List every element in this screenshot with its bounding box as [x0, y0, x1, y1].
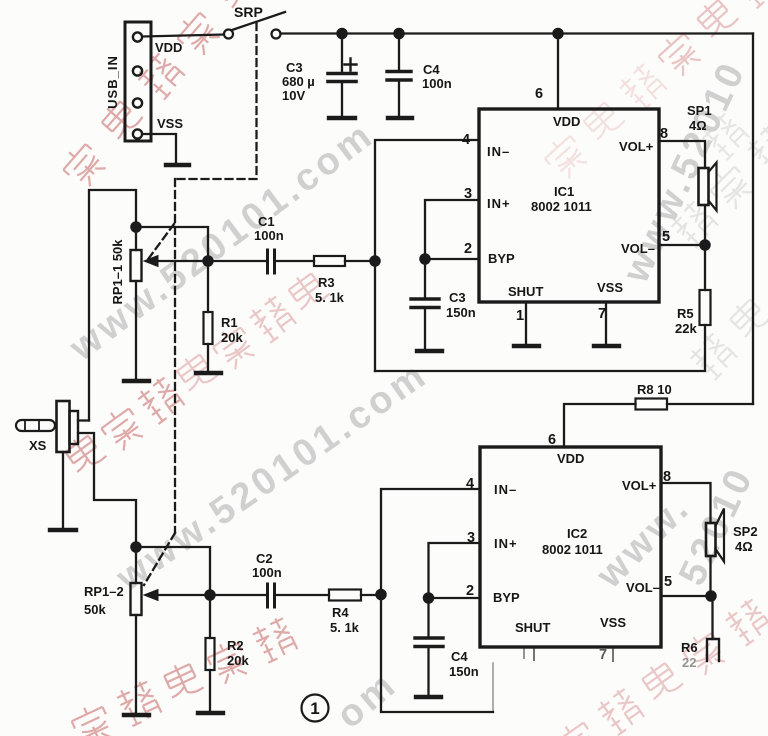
- svg-text:R8 10: R8 10: [637, 382, 672, 397]
- svg-text:4Ω: 4Ω: [735, 539, 753, 554]
- svg-text:R4: R4: [332, 605, 349, 620]
- ground RP1-2: [124, 713, 149, 717]
- label IC2 IN+: [494, 536, 518, 551]
- resistor R5 22k: [700, 290, 711, 325]
- capacitor C1 100n: [268, 250, 275, 273]
- watermark gray chinese right-edge lower: [687, 294, 768, 382]
- node top rail C4 junction: [394, 29, 403, 38]
- label VSS usb: [157, 116, 183, 131]
- resistor R1 20k: [204, 312, 213, 344]
- capacitor C2 100n: [268, 584, 275, 607]
- pin number 2 IC2: [466, 583, 474, 599]
- wire IC1 pin4 IN-: [375, 140, 479, 371]
- svg-text:2: 2: [466, 583, 474, 599]
- wire SP1 to VOL- node: [704, 205, 706, 245]
- resistor R4 5.1k: [329, 590, 361, 601]
- pin number 3 IC2: [467, 530, 475, 546]
- label IC1 VOL+: [619, 139, 654, 154]
- svg-text:5. 1k: 5. 1k: [315, 290, 345, 305]
- svg-text:R1: R1: [221, 315, 238, 330]
- label IC1 SHUT: [508, 284, 543, 299]
- wire R2 top: [209, 595, 211, 638]
- svg-text:VDD: VDD: [557, 451, 584, 466]
- wire IC1 pin6 VDD: [557, 34, 559, 110]
- label IC1 IN-: [487, 144, 510, 159]
- dashed link to RP1-1 wiper: [146, 224, 174, 262]
- wire junction to C2: [210, 594, 266, 596]
- capacitor C4 100n: [387, 72, 411, 81]
- label IC2 IN-: [494, 482, 517, 497]
- svg-text:SP2: SP2: [733, 524, 758, 539]
- wire R3 to IN- node: [345, 260, 375, 262]
- svg-text:5. 1k: 5. 1k: [330, 620, 360, 635]
- label SP1 4ohm: [687, 103, 712, 133]
- wire C4 top: [398, 34, 400, 70]
- svg-text:VSS: VSS: [597, 280, 623, 295]
- svg-text:100n: 100n: [422, 76, 452, 91]
- ground IC1 VSS: [594, 344, 619, 348]
- label VDD usb: [155, 40, 182, 55]
- ground USB VSS: [166, 163, 189, 167]
- watermark gray chinese behind SP1: [699, 111, 749, 161]
- svg-text:BYP: BYP: [488, 251, 515, 266]
- pin number 7 IC1: [598, 306, 606, 322]
- value R5 22k: [675, 306, 697, 336]
- wire R2 bottom: [209, 670, 211, 711]
- svg-text:R5: R5: [677, 306, 694, 321]
- svg-text:RP1–1 50k: RP1–1 50k: [110, 239, 125, 305]
- wire R1 top: [207, 261, 209, 312]
- dashed link to RP1-2 wiper: [144, 533, 175, 585]
- wire IC1 pin3 IN+: [425, 200, 479, 259]
- node IN- channel1: [370, 256, 379, 265]
- wire IC1 pin7 VSS: [605, 302, 607, 344]
- connector USB_IN: [125, 22, 151, 141]
- pin number 1 IC1: [516, 308, 524, 324]
- figure number 1 circled: [302, 695, 329, 722]
- svg-text:6: 6: [548, 432, 556, 448]
- wire IC2 pin2 BYP: [429, 597, 481, 599]
- value C2 100n: [252, 551, 282, 580]
- svg-text:20k: 20k: [221, 330, 243, 345]
- svg-text:C1: C1: [258, 214, 275, 229]
- wire top VDD rail: [281, 32, 754, 34]
- svg-text:5: 5: [664, 574, 672, 590]
- watermark gray chinese right-edge upper: [668, 123, 768, 250]
- svg-text:IC2: IC2: [567, 526, 587, 541]
- wire IC2 pin1 SHUT stub: [533, 648, 535, 660]
- wire C1 to R3: [276, 260, 314, 262]
- svg-text:4Ω: 4Ω: [689, 118, 707, 133]
- wire C3 bottom: [341, 84, 343, 116]
- ground R2: [198, 711, 223, 715]
- node IN- channel2: [376, 590, 385, 599]
- svg-text:VOL+: VOL+: [619, 139, 654, 154]
- svg-text:VSS: VSS: [157, 116, 183, 131]
- wiper arrow RP1-2: [144, 590, 210, 601]
- label IC1 VOL-: [621, 241, 655, 256]
- svg-text:VOL+: VOL+: [622, 478, 657, 493]
- wire XS sleeve to ground: [62, 452, 64, 528]
- pin number 8 IC1: [660, 126, 668, 142]
- wire IC1 pin2 BYP: [425, 258, 479, 260]
- connector XS jack body: [57, 401, 79, 452]
- pin number 4 IC1: [462, 132, 470, 148]
- connector USB_IN pin 3 circle: [133, 98, 142, 107]
- node RP1-2 top junction: [131, 542, 140, 551]
- label IC1 IN+: [487, 196, 511, 211]
- ground R1: [196, 371, 221, 375]
- wire IC1 pin8 VOL+ to SP1: [659, 141, 705, 168]
- label IC2 VDD: [557, 451, 584, 466]
- wire R8 to IC2 pin6: [564, 404, 636, 447]
- node VOL- channel2: [706, 591, 715, 600]
- svg-text:IN+: IN+: [487, 196, 511, 211]
- wire IC2 pin3 IN+: [429, 543, 481, 598]
- wire right rail to R8: [667, 403, 753, 405]
- wire C4 bottom: [398, 82, 400, 116]
- wire IC2 pin4 IN-: [381, 489, 493, 712]
- label RP1-1 50k rotated: [110, 239, 125, 305]
- wire SP2 to VOL- node: [709, 556, 711, 596]
- watermark red chinese bottom-right: [552, 597, 768, 736]
- svg-text:VDD: VDD: [553, 114, 580, 129]
- ground XS: [50, 528, 76, 532]
- value R1 20k: [221, 315, 243, 345]
- label XS: [29, 438, 47, 453]
- switch SRP: [224, 12, 285, 39]
- svg-text:100n: 100n: [252, 565, 282, 580]
- value C4 100n: [422, 62, 452, 91]
- connector USB_IN pin 1 circle: [133, 32, 142, 41]
- resistor R2 20k: [206, 638, 215, 670]
- ground C4: [388, 116, 412, 120]
- wire R1 bottom: [207, 344, 209, 371]
- wire XS ring contact to RP1-2: [78, 433, 136, 547]
- ground C3: [329, 116, 355, 120]
- pin number 6 IC1: [535, 86, 543, 102]
- pin number 3 IC1: [464, 186, 472, 202]
- label IC1 name: [531, 184, 592, 214]
- svg-text:7: 7: [599, 647, 607, 663]
- wire RP1-2 top: [135, 547, 137, 583]
- svg-text:50k: 50k: [84, 602, 106, 617]
- value R3 5.1k: [315, 275, 345, 305]
- wire R4 to IN- node channel2: [361, 594, 381, 596]
- node top rail C3 junction: [337, 29, 346, 38]
- svg-text:8002 1011: 8002 1011: [542, 542, 603, 557]
- wire IC1 feedback loop: [375, 325, 705, 371]
- label USB_IN rotated: [105, 55, 120, 109]
- ground RP1-1: [124, 379, 149, 383]
- svg-text:XS: XS: [29, 438, 47, 453]
- value C3 680u 10V: [282, 60, 315, 103]
- watermark red chinese bottom-left: [69, 616, 298, 736]
- wire RP1-2 bottom: [135, 615, 137, 713]
- svg-text:VSS: VSS: [600, 615, 626, 630]
- connector USB_IN pin 4 circle: [133, 129, 142, 138]
- potentiometer RP1-1 body: [131, 250, 142, 281]
- label SRP: [234, 4, 263, 20]
- wiper arrow RP1-1: [144, 256, 208, 267]
- svg-text:22: 22: [682, 655, 696, 670]
- svg-text:8: 8: [663, 469, 671, 485]
- svg-text:IC1: IC1: [554, 184, 574, 199]
- svg-text:C2: C2: [256, 551, 273, 566]
- svg-text:4: 4: [462, 132, 470, 148]
- value R4 5.1k: [330, 605, 360, 635]
- svg-text:7: 7: [598, 306, 606, 322]
- svg-text:R3: R3: [318, 275, 335, 290]
- watermark red chinese mid-right over IC1: [540, 0, 768, 182]
- svg-text:150n: 150n: [449, 664, 479, 679]
- svg-text:3: 3: [467, 530, 475, 546]
- svg-text:RP1–2: RP1–2: [84, 584, 124, 599]
- node BYP channel1: [420, 254, 429, 263]
- wire IC2 pin8 VOL+ to SP2: [661, 483, 711, 523]
- svg-text:1: 1: [516, 308, 524, 324]
- wire R6 top: [711, 596, 713, 639]
- svg-text:VDD: VDD: [155, 40, 182, 55]
- watermark red chinese mid-left: [61, 268, 333, 480]
- pin number 4 IC2: [466, 476, 474, 492]
- svg-text:SP1: SP1: [687, 103, 712, 118]
- wire IC2 pin5 VOL-: [661, 595, 711, 597]
- label IC2 BYP: [493, 590, 520, 605]
- wire USB VSS pin to ground: [143, 134, 176, 163]
- svg-text:22k: 22k: [675, 321, 697, 336]
- node BYP channel2: [424, 593, 433, 602]
- svg-text:8: 8: [660, 126, 668, 142]
- svg-text:C4: C4: [423, 62, 440, 77]
- svg-text:IN–: IN–: [494, 482, 517, 497]
- pin number 8 IC2: [663, 469, 671, 485]
- label IC1 VDD: [553, 114, 580, 129]
- wire XS tip contact: [78, 419, 89, 421]
- op-amp IC1 8002 body: [479, 109, 659, 302]
- wire C3b top: [424, 259, 426, 297]
- svg-text:5: 5: [662, 229, 670, 245]
- svg-text:6: 6: [535, 86, 543, 102]
- svg-text:IN–: IN–: [487, 144, 510, 159]
- capacitor C4 150n: [415, 638, 443, 647]
- label RP1-2 50k: [84, 584, 124, 617]
- wire RP1-2 junction to R2 branch: [136, 547, 210, 595]
- node channel2 signal junction: [205, 590, 214, 599]
- svg-text:SRP: SRP: [234, 4, 263, 20]
- capacitor C3 680u electrolytic: [328, 59, 357, 82]
- wire right rail down: [752, 34, 754, 405]
- svg-text:3: 3: [464, 186, 472, 202]
- node channel1 signal junction: [203, 256, 212, 265]
- pin number 2 IC1: [464, 241, 472, 257]
- watermark red chinese top-left: [58, 0, 261, 190]
- wire VDD pin to switch: [143, 35, 224, 37]
- svg-text:680 µ: 680 µ: [282, 74, 315, 89]
- pin number 6 IC2: [548, 432, 556, 448]
- label IC2 VOL+: [622, 478, 657, 493]
- wire C3 top: [341, 34, 343, 72]
- pin number 5 IC1: [662, 229, 670, 245]
- value C1 100n: [254, 214, 284, 243]
- svg-text:20k: 20k: [227, 653, 249, 668]
- label IC1 VSS: [597, 280, 623, 295]
- node VOL- channel1: [700, 240, 709, 249]
- wire junction to C1: [208, 260, 266, 262]
- wire C4b bottom: [427, 649, 429, 696]
- pin number 7 IC2 faded: [599, 647, 607, 663]
- svg-text:4: 4: [466, 476, 474, 492]
- ground C4b: [416, 695, 441, 699]
- svg-text:1: 1: [310, 699, 319, 718]
- wire IC1 pin1 SHUT: [525, 302, 527, 344]
- wire RP1-1 junction to R1 branch: [136, 227, 208, 261]
- svg-text:IN+: IN+: [494, 536, 518, 551]
- wire IC2 pin7 VSS stub: [612, 649, 614, 661]
- wire faint stub right of feedback: [492, 663, 494, 712]
- svg-text:R6: R6: [681, 640, 698, 655]
- value C4 150n: [449, 649, 479, 679]
- resistor R3 5.1k: [314, 256, 345, 266]
- svg-text:150n: 150n: [446, 305, 476, 320]
- wire IC2 pin1 stub2: [523, 649, 525, 658]
- wire RP1-1 bottom: [135, 281, 137, 379]
- svg-text:VOL–: VOL–: [621, 241, 655, 256]
- svg-text:10V: 10V: [282, 88, 305, 103]
- svg-text:SHUT: SHUT: [508, 284, 543, 299]
- svg-text:2: 2: [464, 241, 472, 257]
- label SP2 4ohm: [733, 524, 758, 554]
- wire C4b top: [427, 598, 429, 636]
- svg-text:C3: C3: [286, 60, 303, 75]
- value R8 10: [637, 382, 672, 397]
- svg-text:8002 1011: 8002 1011: [531, 199, 592, 214]
- connector XS jack plug tip: [16, 420, 55, 431]
- value R6 faded: [681, 640, 698, 670]
- label IC2 name: [542, 526, 603, 557]
- wire C2 to R4: [276, 594, 329, 596]
- node top rail IC1 VDD junction: [553, 29, 562, 38]
- wire IC1 pin5 VOL-: [659, 244, 705, 246]
- label IC2 VSS: [600, 615, 626, 630]
- label IC2 VOL-: [626, 580, 660, 595]
- wire R5 top to VOL-: [704, 245, 706, 290]
- wire RP1-1 top: [135, 227, 137, 250]
- svg-text:C4: C4: [451, 649, 468, 664]
- resistor R8 10: [636, 399, 668, 410]
- ground C3b: [417, 349, 442, 353]
- value R2 20k: [227, 638, 249, 668]
- op-amp IC2 8002 body: [480, 447, 661, 647]
- speaker SP2: [706, 509, 724, 562]
- speaker SP1: [699, 163, 717, 211]
- capacitor C3 150n: [411, 299, 439, 308]
- svg-text:VOL–: VOL–: [626, 580, 660, 595]
- svg-text:100n: 100n: [254, 228, 284, 243]
- svg-text:SHUT: SHUT: [515, 620, 550, 635]
- wire C3b bottom: [424, 310, 426, 350]
- svg-text:C3: C3: [449, 290, 466, 305]
- value C3 150n: [446, 290, 476, 320]
- potentiometer RP1-2 body: [131, 583, 142, 615]
- svg-text:USB_IN: USB_IN: [105, 55, 120, 109]
- label IC2 SHUT: [515, 620, 550, 635]
- dashed link SRP to potentiometers: [175, 23, 257, 533]
- ground IC1 SHUT: [514, 344, 539, 348]
- resistor R6 open bottom faded: [707, 639, 719, 661]
- wire left input top channel: [89, 190, 136, 421]
- svg-text:BYP: BYP: [493, 590, 520, 605]
- node RP1-1 top junction: [131, 222, 140, 231]
- pin number 5 IC2: [664, 574, 672, 590]
- label IC1 BYP: [488, 251, 515, 266]
- svg-text:R2: R2: [227, 638, 244, 653]
- connector USB_IN pin 2 circle: [133, 66, 142, 75]
